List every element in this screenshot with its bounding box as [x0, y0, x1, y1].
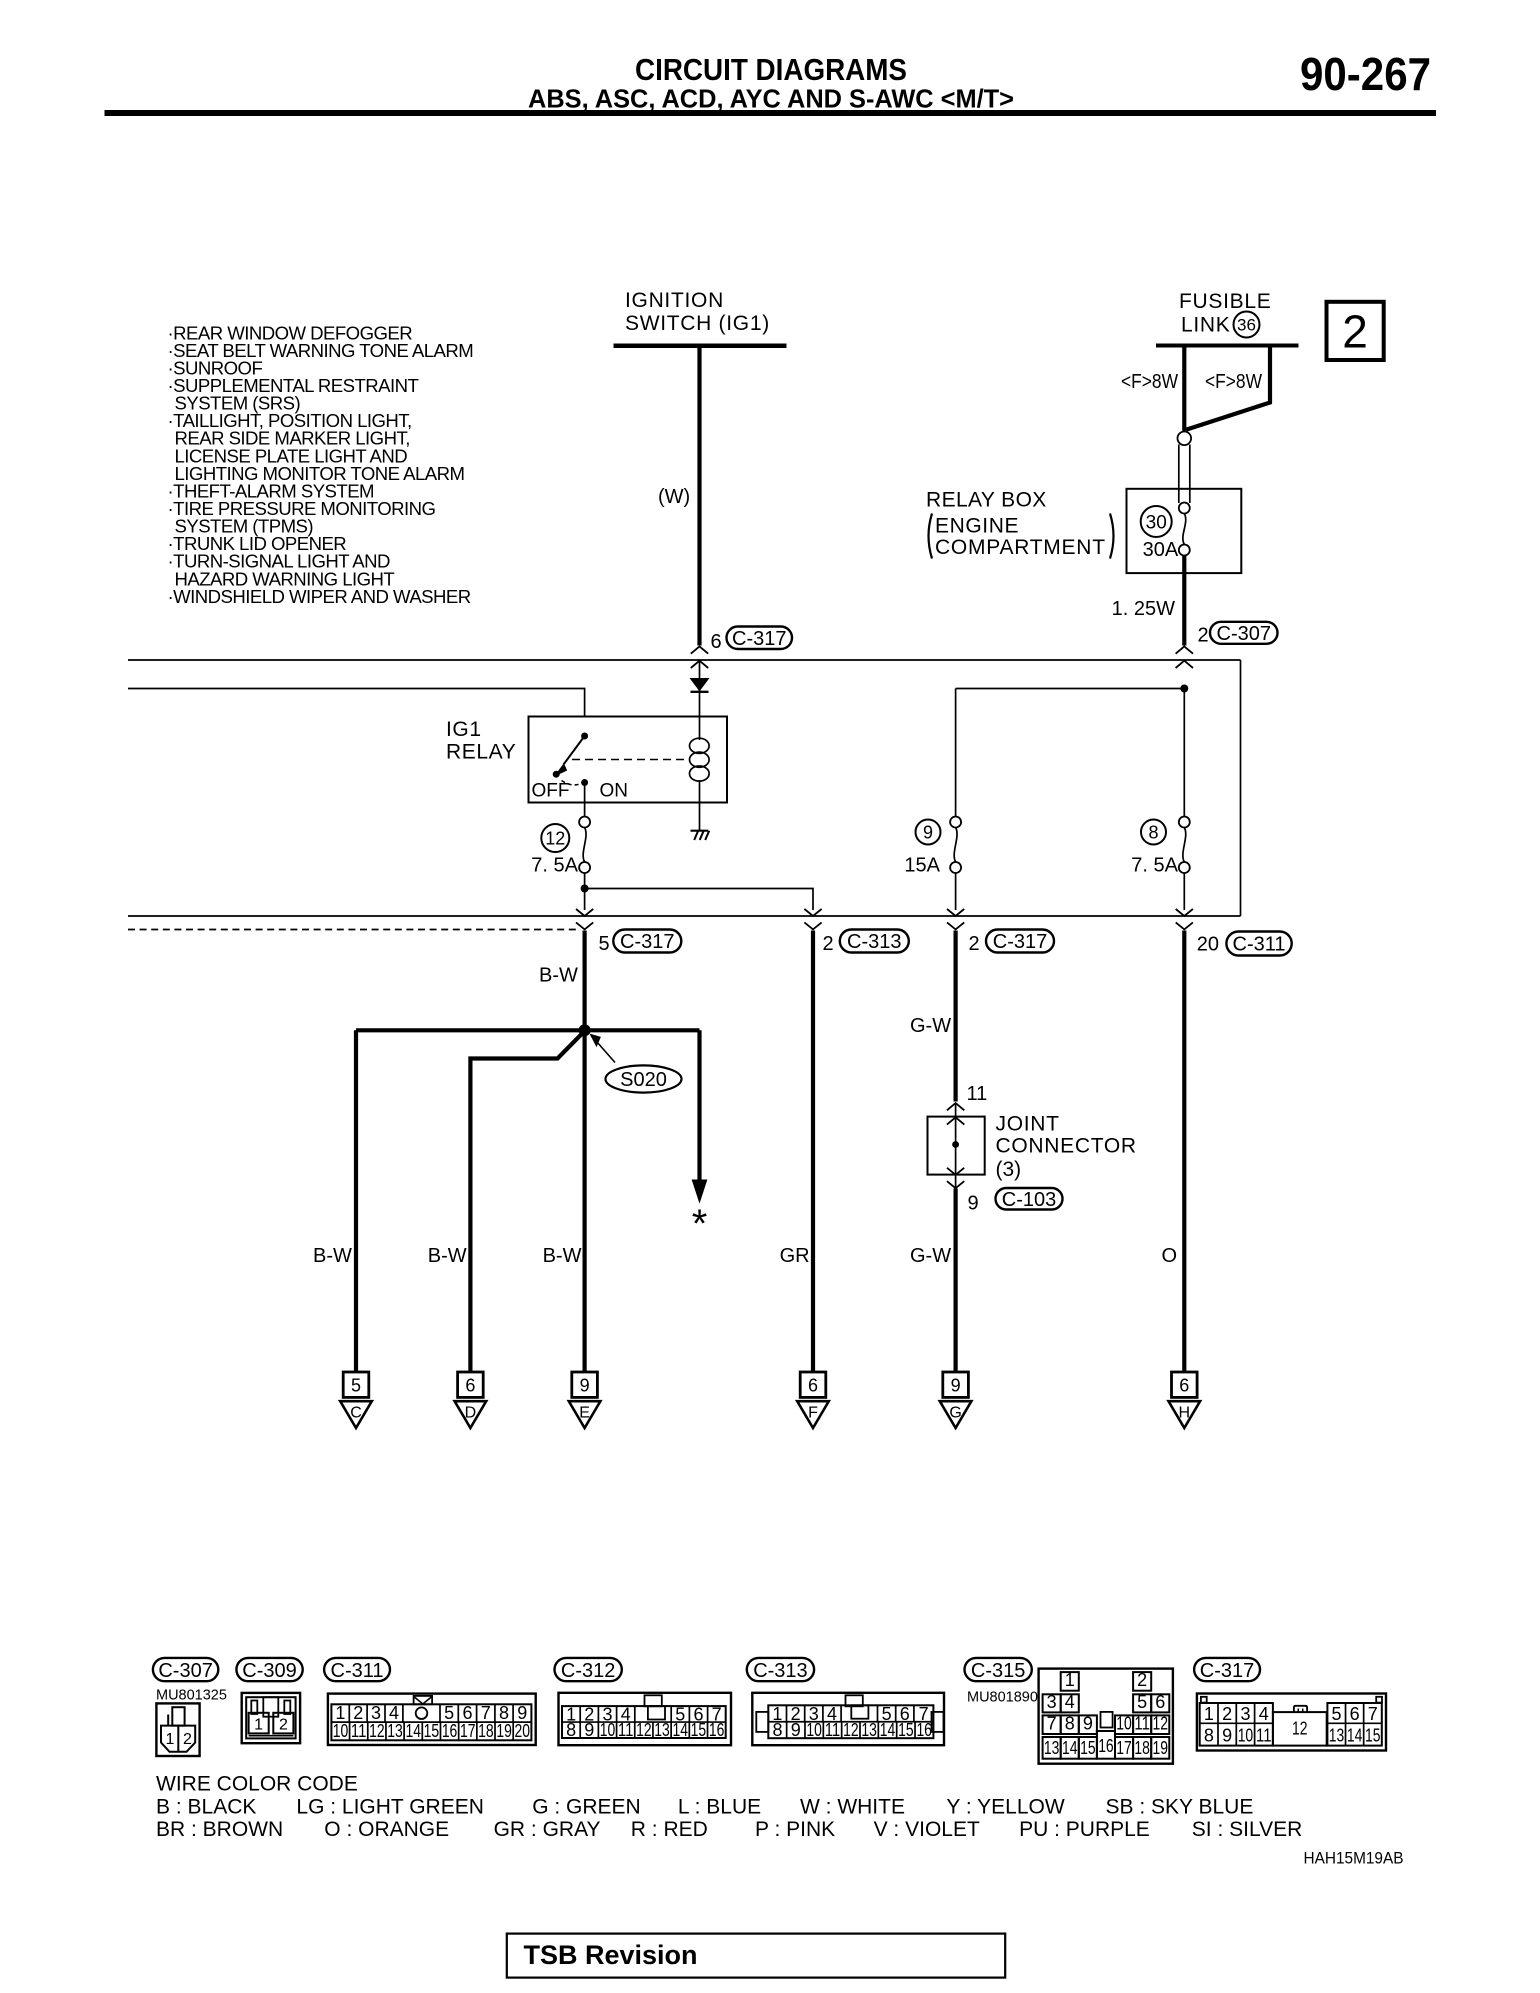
fuse 9 15A [950, 817, 961, 828]
svg-text:5: 5 [599, 933, 610, 955]
svg-text:ABS, ASC, ACD, AYC AND S-AWC <: ABS, ASC, ACD, AYC AND S-AWC <M/T> [528, 84, 1014, 114]
svg-text:4: 4 [1259, 1704, 1269, 1724]
svg-text:2: 2 [279, 1717, 288, 1734]
crossing rail3 G-W [947, 909, 964, 916]
svg-text:14: 14 [405, 1721, 421, 1741]
svg-text:<F>8W: <F>8W [1121, 371, 1178, 393]
svg-text:O : ORANGE: O : ORANGE [324, 1818, 449, 1841]
svg-text:9: 9 [968, 1193, 979, 1215]
circled 8 [1141, 820, 1166, 845]
svg-text:6: 6 [1179, 1376, 1189, 1396]
svg-text:SWITCH (IG1): SWITCH (IG1) [625, 312, 770, 335]
svg-text:20: 20 [1197, 934, 1219, 956]
svg-text:16: 16 [442, 1721, 458, 1741]
circled 36 [1234, 312, 1260, 338]
svg-text:C-307: C-307 [1217, 623, 1271, 645]
svg-text:BR : BROWN: BR : BROWN [156, 1818, 283, 1841]
svg-text:9: 9 [791, 1720, 801, 1740]
svg-text:11: 11 [825, 1720, 841, 1740]
svg-text:3: 3 [1047, 1692, 1057, 1712]
connector C-315 label [965, 1658, 1032, 1681]
svg-text:W : WHITE: W : WHITE [800, 1796, 905, 1819]
svg-text:E: E [579, 1405, 590, 1422]
svg-text:H: H [1179, 1405, 1191, 1422]
circled 9 [916, 820, 941, 845]
wire W from ignition switch [697, 346, 701, 646]
svg-text:7: 7 [1047, 1714, 1057, 1734]
svg-text:C-312: C-312 [561, 1660, 615, 1682]
wire 1.25W below relay box [1182, 555, 1186, 646]
svg-text:1: 1 [254, 1717, 263, 1734]
svg-text:15: 15 [1080, 1738, 1096, 1758]
connector C-317 pinout [1197, 1694, 1386, 1751]
svg-text:C-317: C-317 [732, 628, 786, 650]
svg-text:FUSIBLE: FUSIBLE [1179, 290, 1271, 313]
svg-text:6: 6 [808, 1376, 818, 1396]
svg-text:C: C [350, 1405, 362, 1422]
connector C-311 pinout [328, 1694, 536, 1745]
svg-text:2: 2 [823, 933, 834, 955]
wire diagonal join [1186, 402, 1272, 430]
svg-text:ON: ON [600, 781, 629, 802]
svg-text:17: 17 [460, 1721, 476, 1741]
svg-text:C-313: C-313 [847, 931, 901, 953]
wire star branch [697, 1030, 701, 1182]
wire relay ON to fuse 12 [584, 783, 586, 817]
svg-text:G: G [949, 1405, 961, 1422]
svg-text:8: 8 [772, 1720, 782, 1740]
svg-text:12: 12 [843, 1720, 859, 1740]
svg-text:19: 19 [1153, 1738, 1169, 1758]
svg-text:CONNECTOR: CONNECTOR [996, 1135, 1137, 1158]
connector C-317 label [1194, 1658, 1260, 1681]
svg-text:2: 2 [1137, 1670, 1147, 1690]
svg-text:19: 19 [496, 1721, 512, 1741]
svg-text:<F>8W: <F>8W [1205, 371, 1262, 393]
svg-text:C-317: C-317 [620, 931, 674, 953]
svg-text:2: 2 [1222, 1704, 1232, 1724]
wire B-W main [582, 931, 586, 1373]
svg-text:C-317: C-317 [1200, 1660, 1254, 1682]
svg-text:TSB Revision: TSB Revision [524, 1940, 698, 1970]
svg-text:13: 13 [861, 1720, 877, 1740]
circled 30 [1141, 506, 1172, 537]
svg-text:5: 5 [444, 1703, 454, 1723]
svg-text:10: 10 [806, 1720, 822, 1740]
svg-text:6: 6 [1155, 1692, 1165, 1712]
crossing at rail 1, node fusible [1176, 646, 1193, 653]
wire G-W upper [953, 931, 957, 1102]
ground [699, 803, 701, 831]
svg-text:9: 9 [517, 1703, 527, 1723]
svg-text:12: 12 [1153, 1714, 1169, 1734]
svg-text:11: 11 [967, 1083, 988, 1105]
svg-text:HAH15M19AB: HAH15M19AB [1304, 1849, 1404, 1868]
svg-text:14: 14 [880, 1720, 896, 1740]
svg-text:1: 1 [1204, 1704, 1214, 1724]
wire branch to GR column [585, 889, 813, 911]
svg-text:Y : YELLOW: Y : YELLOW [946, 1796, 1064, 1819]
svg-text:IG1: IG1 [446, 718, 482, 741]
svg-text:G : GREEN: G : GREEN [532, 1796, 641, 1819]
relay coil [699, 717, 701, 741]
svg-text:(3): (3) [996, 1158, 1022, 1181]
wire [800, 1372, 826, 1397]
svg-text:14: 14 [1347, 1726, 1363, 1746]
wire branch to terminal D [470, 1031, 584, 1372]
crossing at rail 1, node ignition [691, 646, 708, 653]
svg-text:MU801890: MU801890 [967, 1690, 1038, 1706]
svg-text:S020: S020 [620, 1069, 667, 1091]
circled 12 [541, 824, 569, 852]
svg-text:20: 20 [515, 1721, 531, 1741]
svg-text:5: 5 [1137, 1692, 1147, 1712]
svg-text:RELAY BOX: RELAY BOX [926, 489, 1047, 512]
svg-text:9: 9 [580, 1376, 590, 1396]
svg-text:8: 8 [499, 1703, 509, 1723]
svg-text:2: 2 [183, 1731, 192, 1748]
svg-text:15: 15 [1365, 1726, 1381, 1746]
wire fuse 12 down [584, 873, 586, 910]
svg-text:G-W: G-W [910, 1015, 951, 1037]
svg-text:1: 1 [166, 1731, 175, 1748]
dashed section boundary [128, 929, 580, 931]
rail 2 right segment [956, 688, 1185, 690]
rail 2 drop to fuse 9 [955, 689, 957, 817]
wire G-W lower [953, 1189, 957, 1373]
svg-text:C-307: C-307 [158, 1660, 212, 1682]
svg-text:6: 6 [462, 1703, 472, 1723]
fuse 8 7.5A [1179, 817, 1190, 828]
svg-text:7. 5A: 7. 5A [1131, 855, 1178, 877]
svg-text:13: 13 [387, 1721, 403, 1741]
svg-text:15: 15 [691, 1720, 707, 1740]
wire to terminal C [354, 1030, 358, 1372]
node junction on fusible wire [1180, 685, 1188, 693]
connector C-312 label [555, 1658, 622, 1681]
svg-text:16: 16 [1098, 1736, 1114, 1756]
svg-text:11: 11 [1134, 1714, 1150, 1734]
svg-text:2: 2 [969, 933, 980, 955]
svg-text:9: 9 [1222, 1726, 1232, 1746]
svg-text:JOINT: JOINT [996, 1113, 1060, 1136]
svg-text:GR: GR [780, 1245, 810, 1267]
svg-text:13: 13 [1044, 1738, 1060, 1758]
fusible link bus bar [1156, 344, 1299, 348]
svg-text:10: 10 [1238, 1726, 1254, 1746]
svg-text:90-267: 90-267 [1300, 48, 1431, 100]
svg-text:6: 6 [465, 1376, 475, 1396]
svg-text:1. 25W: 1. 25W [1112, 598, 1175, 620]
svg-text:C-309: C-309 [242, 1660, 296, 1682]
svg-text:B-W: B-W [428, 1245, 467, 1267]
svg-text:11: 11 [618, 1720, 634, 1740]
svg-text:F: F [808, 1405, 818, 1422]
svg-text:15A: 15A [904, 855, 940, 877]
svg-text:4: 4 [389, 1703, 399, 1723]
splice label S020 [606, 1065, 682, 1092]
wire fusible column to rail3 [1183, 689, 1185, 817]
svg-text:D: D [465, 1405, 477, 1422]
svg-text:8: 8 [1204, 1726, 1214, 1746]
svg-text:10: 10 [333, 1721, 349, 1741]
svg-text:6: 6 [711, 631, 722, 653]
svg-text:B-W: B-W [543, 1245, 582, 1267]
svg-text:WIRE COLOR CODE: WIRE COLOR CODE [156, 1773, 358, 1796]
svg-text:C-103: C-103 [1002, 1189, 1056, 1211]
rail 2 left segment into relay [128, 689, 585, 717]
svg-text:2: 2 [1342, 306, 1368, 358]
svg-text:18: 18 [1134, 1738, 1150, 1758]
svg-text:B-W: B-W [539, 965, 578, 987]
svg-text:2: 2 [353, 1703, 363, 1723]
svg-text:B : BLACK: B : BLACK [156, 1796, 256, 1819]
svg-text:30: 30 [1146, 512, 1167, 533]
svg-text:L : BLUE: L : BLUE [678, 1796, 761, 1819]
svg-text:15: 15 [898, 1720, 914, 1740]
page reference box 2 [1327, 302, 1384, 360]
connector C-315 pinout [1039, 1669, 1173, 1764]
svg-text:C-317: C-317 [993, 931, 1047, 953]
wire S020 bus [356, 1028, 700, 1032]
svg-text:36: 36 [1237, 316, 1256, 335]
svg-text:9: 9 [1083, 1714, 1093, 1734]
svg-text:14: 14 [1062, 1738, 1078, 1758]
svg-text:10: 10 [1116, 1714, 1132, 1734]
svg-text:*: * [692, 1202, 708, 1246]
TSB revision box [507, 1934, 1005, 1978]
svg-text:10: 10 [600, 1720, 616, 1740]
relay box (engine compartment) outline [1127, 489, 1242, 573]
splice S020 [579, 1024, 591, 1036]
joint connector (3) box [928, 1117, 985, 1175]
connector C-313 pinout [752, 1693, 944, 1745]
svg-text:RELAY: RELAY [446, 741, 516, 764]
svg-text:C-311: C-311 [331, 1660, 384, 1682]
svg-text:IGNITION: IGNITION [625, 289, 724, 312]
svg-text:SI : SILVER: SI : SILVER [1192, 1818, 1303, 1841]
relay OFF contact [553, 771, 560, 778]
C-317 cavity 12 [1273, 1712, 1327, 1746]
svg-text:C-313: C-313 [753, 1660, 807, 1682]
wire [343, 1372, 369, 1397]
svg-text:ENGINE: ENGINE [935, 515, 1019, 538]
svg-text:8: 8 [1148, 822, 1158, 842]
svg-text:9: 9 [951, 1376, 961, 1396]
svg-text:3: 3 [1240, 1704, 1250, 1724]
fuse 30 30A [1179, 503, 1190, 514]
svg-text:6: 6 [1350, 1704, 1360, 1724]
wire [458, 1372, 484, 1397]
svg-text:MU801325: MU801325 [156, 1688, 227, 1704]
relay coil dashed link [572, 759, 688, 761]
svg-text:LINK: LINK [1181, 314, 1231, 337]
svg-text:12: 12 [369, 1721, 385, 1741]
connector C-312 pinout [559, 1693, 732, 1745]
svg-text:9: 9 [923, 822, 933, 842]
svg-text:SB : SKY BLUE: SB : SKY BLUE [1106, 1796, 1254, 1819]
right vertical tie [1240, 660, 1242, 916]
svg-text:14: 14 [672, 1720, 688, 1740]
wire from rail1 to relay [699, 660, 701, 717]
connector C-307 label [153, 1658, 218, 1681]
svg-text:7: 7 [1368, 1704, 1378, 1724]
svg-text:P : PINK: P : PINK [755, 1818, 835, 1841]
relay OFF dashed tick [562, 781, 582, 785]
svg-text:R : RED: R : RED [631, 1818, 708, 1841]
svg-text:PU : PURPLE: PU : PURPLE [1019, 1818, 1150, 1841]
svg-text:17: 17 [1116, 1738, 1132, 1758]
svg-text:CIRCUIT DIAGRAMS: CIRCUIT DIAGRAMS [635, 52, 907, 87]
svg-text:1: 1 [1065, 1670, 1075, 1690]
svg-text:11: 11 [351, 1721, 367, 1741]
svg-text:C-315: C-315 [971, 1660, 1025, 1682]
svg-text:1: 1 [335, 1703, 345, 1723]
node S-branch [581, 885, 589, 893]
connector C-313 label [747, 1658, 814, 1681]
ignition switch bus bar [614, 344, 787, 349]
header rule [105, 110, 1437, 116]
rail 1 [128, 659, 1241, 661]
svg-text:30A: 30A [1143, 539, 1179, 561]
svg-text:16: 16 [916, 1720, 932, 1740]
svg-text:5: 5 [351, 1376, 361, 1396]
svg-text:3: 3 [371, 1703, 381, 1723]
svg-text:16: 16 [709, 1720, 725, 1740]
IG1 relay box [529, 717, 728, 803]
svg-text:12: 12 [1292, 1719, 1308, 1739]
relay ON contact [581, 779, 588, 786]
svg-text:7: 7 [481, 1703, 491, 1723]
wire O [1182, 931, 1186, 1373]
svg-text:11: 11 [1256, 1726, 1272, 1746]
relay switch arm [564, 736, 585, 765]
svg-text:C-311: C-311 [1233, 934, 1286, 956]
svg-text:5: 5 [1331, 1704, 1341, 1724]
svg-text:9: 9 [584, 1720, 594, 1740]
svg-text:G-W: G-W [910, 1245, 951, 1267]
svg-text:GR : GRAY: GR : GRAY [494, 1818, 601, 1841]
diode D1 [691, 679, 709, 691]
svg-text:12: 12 [545, 828, 565, 848]
svg-text:V : VIOLET: V : VIOLET [874, 1818, 980, 1841]
relay switch common node [581, 733, 588, 740]
crossing rail3 B-W [576, 909, 593, 916]
crossing rail3 O [1176, 909, 1193, 916]
wire [943, 1372, 969, 1397]
wire [572, 1372, 598, 1397]
svg-text:O: O [1162, 1245, 1178, 1267]
connector C-307 pinout [156, 1703, 199, 1756]
wire GR [811, 931, 815, 1373]
svg-text:15: 15 [424, 1721, 440, 1741]
connector C-309 label [236, 1658, 302, 1681]
crossing into joint connector [947, 1103, 964, 1110]
svg-text:(W): (W) [658, 486, 690, 508]
svg-text:12: 12 [636, 1720, 652, 1740]
svg-text:18: 18 [478, 1721, 494, 1741]
svg-text:LG : LIGHT GREEN: LG : LIGHT GREEN [296, 1796, 484, 1819]
fuse 12 7.5A [579, 817, 590, 828]
connector C-311 label [324, 1658, 390, 1681]
svg-text:OFF: OFF [532, 781, 570, 802]
svg-text:7. 5A: 7. 5A [531, 855, 578, 877]
crossing out of joint connector [947, 1168, 964, 1175]
svg-text:B-W: B-W [313, 1245, 352, 1267]
svg-text:8: 8 [1065, 1714, 1075, 1734]
wire fusible link right drop [1268, 346, 1272, 403]
connector C-309 pinout [242, 1693, 300, 1743]
svg-text:COMPARTMENT: COMPARTMENT [935, 536, 1106, 559]
svg-text:2: 2 [1198, 625, 1209, 647]
svg-text:8: 8 [566, 1720, 576, 1740]
crossing rail3 GR [804, 909, 821, 916]
svg-text:13: 13 [1329, 1726, 1345, 1746]
svg-text:13: 13 [654, 1720, 670, 1740]
wire [1172, 1372, 1198, 1397]
wire fusible link left drop [1182, 346, 1186, 432]
rail 3 [128, 915, 1241, 917]
fusible link element 36 [1178, 432, 1192, 446]
svg-text:4: 4 [1065, 1692, 1075, 1712]
svg-text:·WINDSHIELD WIPER AND WASHER: ·WINDSHIELD WIPER AND WASHER [168, 586, 471, 607]
